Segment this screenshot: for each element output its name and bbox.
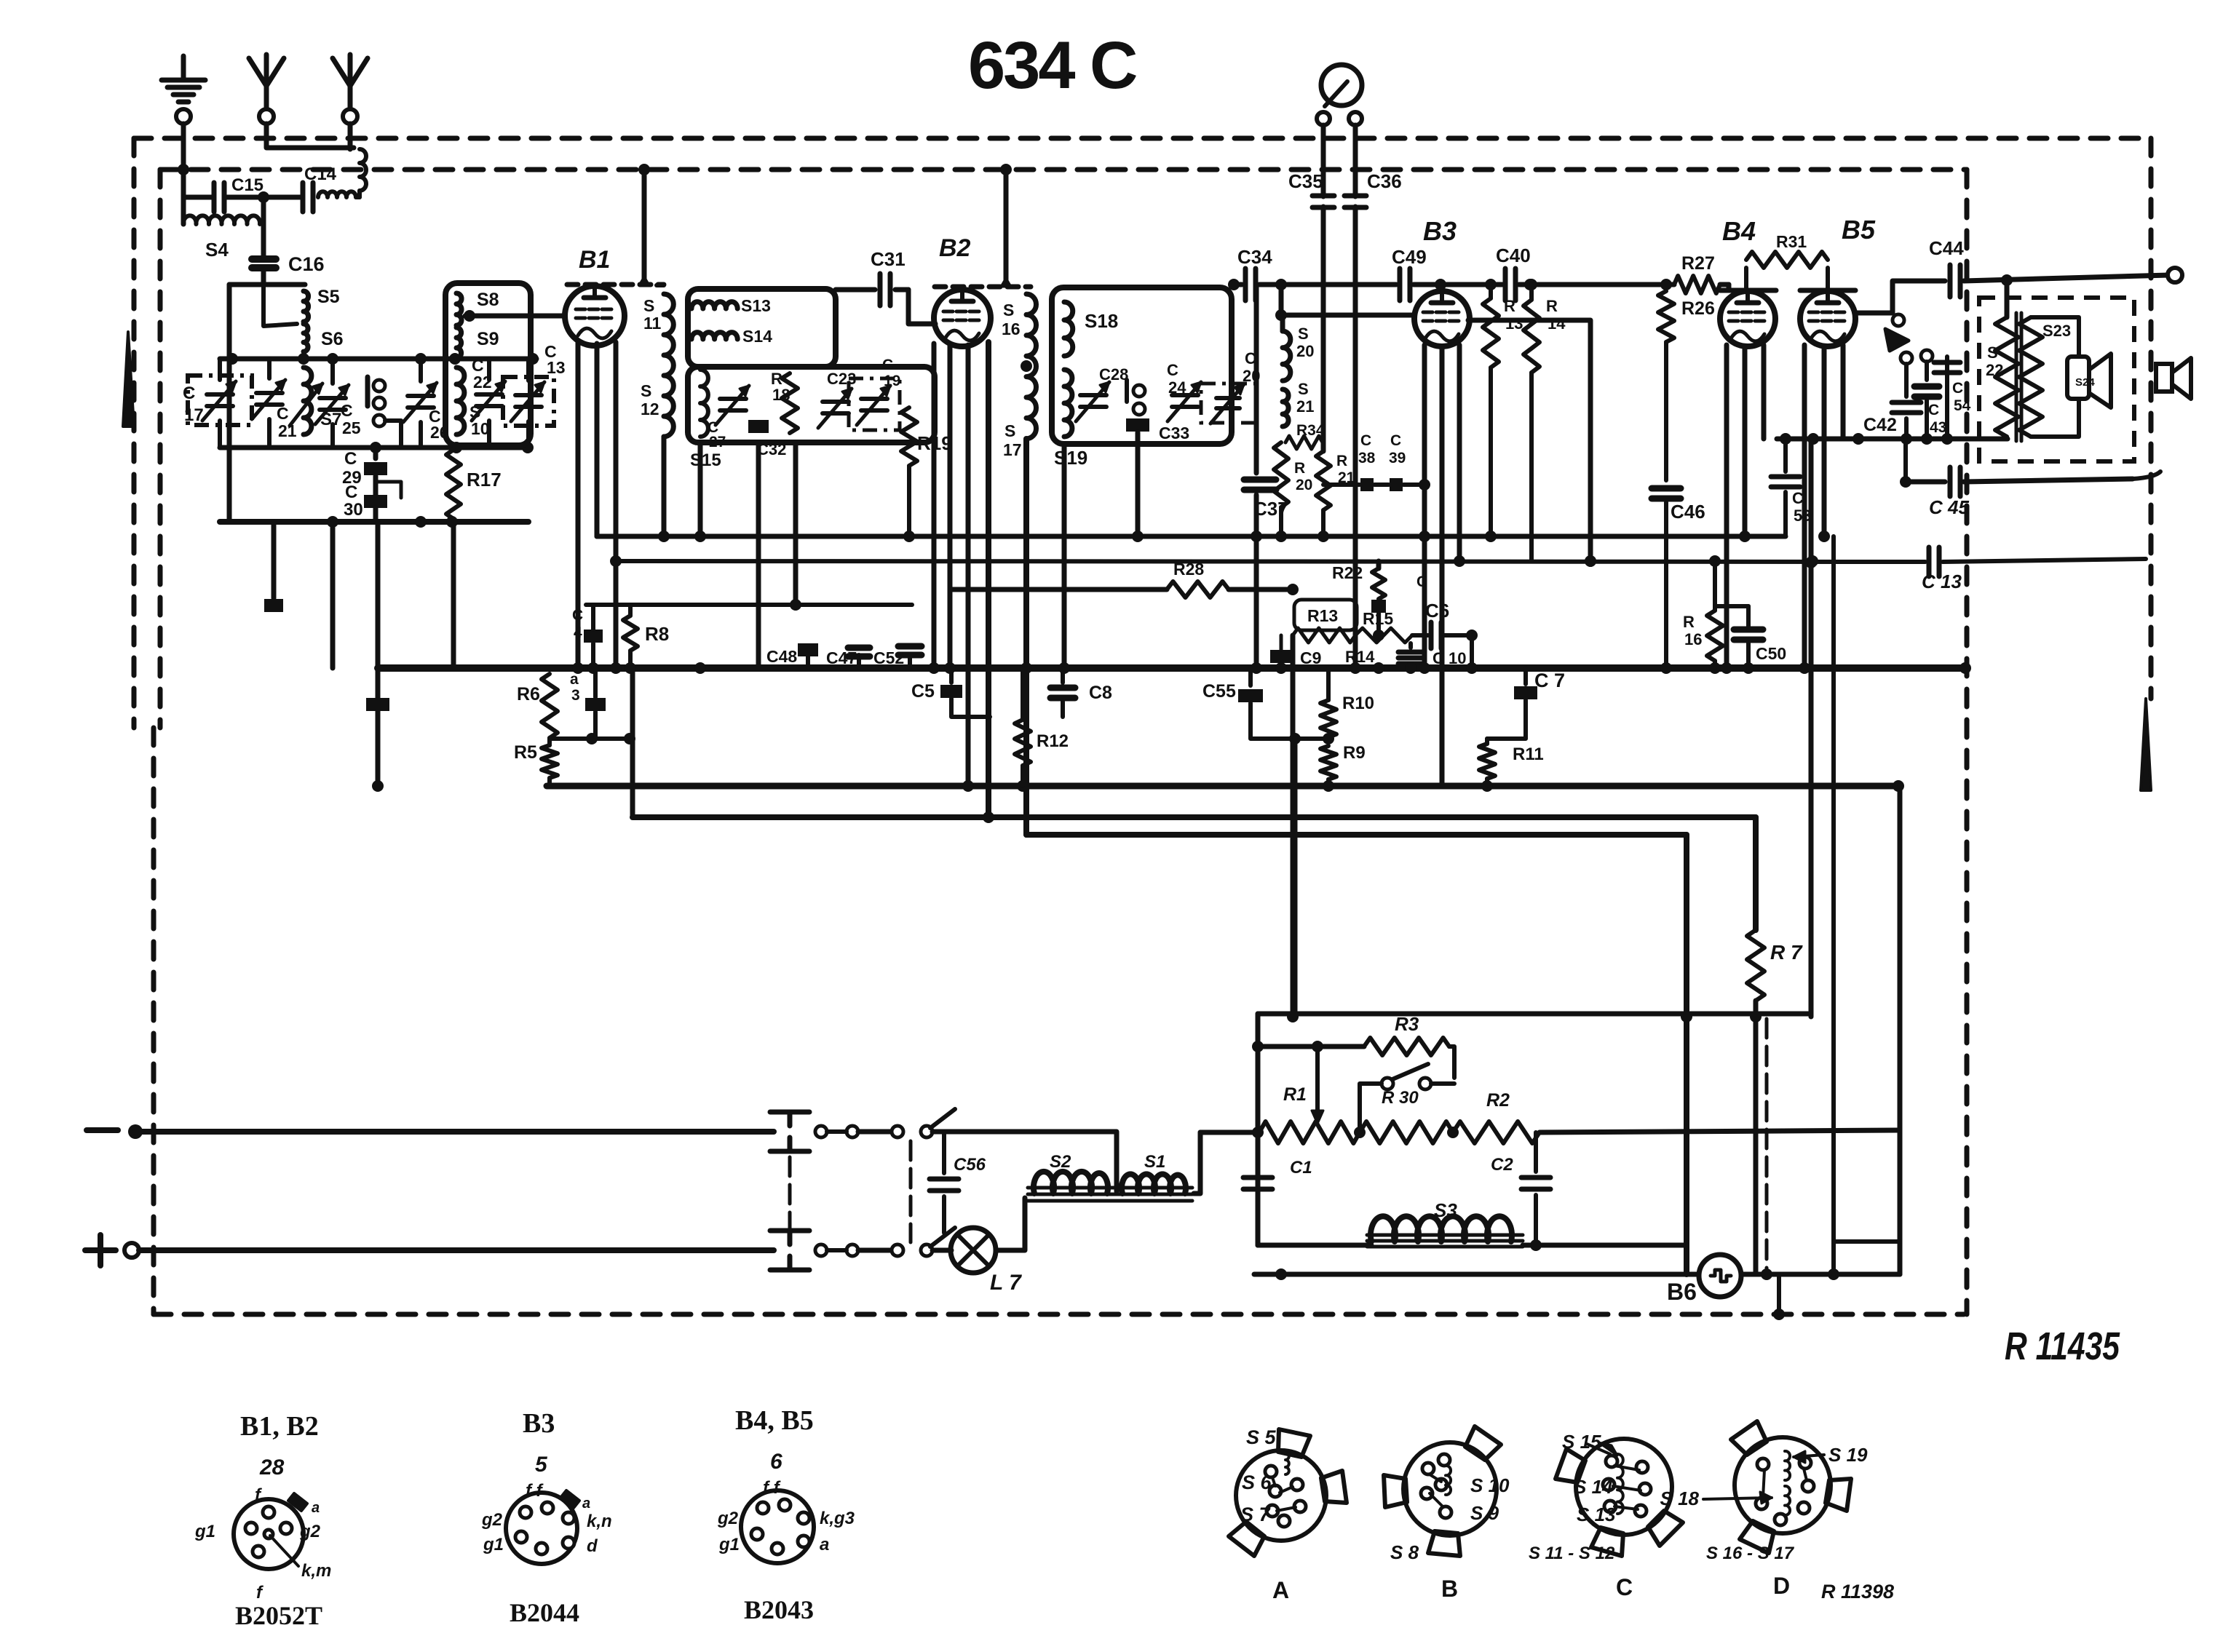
resistor R27 <box>1674 276 1720 293</box>
R-box left edge <box>1256 1014 1261 1245</box>
capacitor C56 <box>942 1132 946 1173</box>
capacitor C11 <box>1371 600 1386 613</box>
output terminal <box>2168 268 2182 282</box>
svg-text:R31: R31 <box>1776 232 1807 251</box>
coil core lines <box>1028 1186 1192 1190</box>
wire coil tap <box>263 285 297 326</box>
capacitor C45 wire <box>1903 439 1908 482</box>
antenna terminal 2 <box>343 109 357 124</box>
resistor R3 <box>1364 1038 1449 1055</box>
coil S7 <box>304 368 312 434</box>
capacitor C34 <box>1243 269 1248 301</box>
resistor R19 <box>901 408 917 466</box>
capacitor C49 <box>1398 269 1403 301</box>
svg-text:C 45: C 45 <box>1929 496 1969 518</box>
wire B6 right <box>1741 1272 1900 1277</box>
coil after C14 <box>318 191 356 197</box>
mains connector upper <box>770 1110 809 1115</box>
svg-text:B1, B2: B1, B2 <box>240 1411 319 1442</box>
svg-text:S9: S9 <box>477 329 499 349</box>
variable capacitor C21 <box>267 359 272 378</box>
svg-text:B4, B5: B4, B5 <box>735 1405 814 1436</box>
resistor R2 <box>1453 1121 1540 1143</box>
svg-text:S 13: S 13 <box>1577 1504 1616 1525</box>
svg-text:6: 6 <box>770 1450 782 1474</box>
wire x2317 drop <box>1684 835 1689 1274</box>
svg-text:C: C <box>277 404 289 423</box>
svg-text:12: 12 <box>641 400 659 418</box>
svg-text:S8: S8 <box>477 290 499 310</box>
svg-text:R17: R17 <box>467 469 502 491</box>
B1 grid cap wire from chassis <box>642 170 647 282</box>
wire x1779 drop to R-box <box>1293 739 1298 1017</box>
resistor R28 <box>950 587 1167 592</box>
svg-text:R: R <box>1504 297 1515 315</box>
svg-text:C34: C34 <box>1237 246 1272 268</box>
ground symbol <box>181 56 186 79</box>
svg-text:R13: R13 <box>1307 606 1338 625</box>
wiper arrow R1 <box>1315 1047 1320 1109</box>
chassis dashed border outer right <box>2149 138 2154 699</box>
svg-text:g1: g1 <box>194 1522 215 1541</box>
wire C29 side loop <box>376 482 401 498</box>
svg-text:B1: B1 <box>579 246 610 274</box>
B4 legs <box>1724 345 1729 668</box>
svg-text:634 C: 634 C <box>968 28 1136 103</box>
capacitor C50 <box>1715 604 1748 608</box>
svg-text:C32: C32 <box>757 440 786 458</box>
svg-text:R12: R12 <box>1037 731 1069 751</box>
resistor R14v <box>1529 285 1534 300</box>
wire ground to node <box>181 124 186 197</box>
svg-text:B2052T: B2052T <box>235 1601 322 1630</box>
capacitor C31 <box>878 274 883 306</box>
transformer S23 secondary <box>2019 317 2042 437</box>
resistor R5 <box>542 745 558 778</box>
resistor R1 <box>1259 1121 1360 1143</box>
svg-text:S4: S4 <box>205 239 229 261</box>
box4 outline <box>1052 287 1232 444</box>
resistor R6 <box>542 674 558 738</box>
chassis dashed border outer left <box>132 138 137 728</box>
capacitor C38 <box>1360 478 1374 491</box>
trimmer box C17 <box>188 376 252 425</box>
svg-text:S1: S1 <box>1144 1152 1165 1172</box>
svg-text:C2: C2 <box>1491 1155 1513 1175</box>
svg-text:C: C <box>1792 489 1804 507</box>
capacitor C43 <box>1914 384 1939 390</box>
wire C35 vertical <box>1321 125 1326 196</box>
svg-text:R5: R5 <box>514 742 537 763</box>
svg-text:S 14: S 14 <box>1574 1476 1613 1498</box>
coil S6 <box>304 324 308 352</box>
variable capacitor C27 <box>720 397 746 401</box>
antenna symbol 1 <box>249 58 284 86</box>
B1 top cap bar <box>567 282 664 287</box>
svg-text:21: 21 <box>1296 397 1314 416</box>
capacitor C44 <box>1948 265 1953 297</box>
svg-text:22: 22 <box>1986 361 2003 379</box>
svg-text:C42: C42 <box>1863 415 1897 435</box>
plus line <box>139 1247 774 1253</box>
legend coil pack A <box>1236 1450 1326 1541</box>
svg-text:C33: C33 <box>1159 424 1189 442</box>
capacitor C35 <box>1312 194 1334 199</box>
svg-text:C 7: C 7 <box>1534 670 1565 691</box>
svg-text:S: S <box>1298 380 1309 398</box>
svg-text:S 7: S 7 <box>1240 1504 1272 1525</box>
coil S1 <box>1122 1174 1186 1194</box>
svg-text:C: C <box>1167 361 1178 379</box>
valve B4 <box>1720 291 1775 346</box>
svg-text:S18: S18 <box>1085 310 1118 332</box>
capacitor C15 <box>212 183 217 212</box>
wire rail mid <box>220 445 528 450</box>
svg-text:13: 13 <box>547 358 566 377</box>
svg-text:S: S <box>1004 421 1015 440</box>
wire box1 left vertical <box>227 285 232 522</box>
coil S15 <box>700 370 708 437</box>
wire to lamp <box>932 1248 951 1253</box>
mains connector lower <box>770 1228 809 1234</box>
svg-text:C15: C15 <box>231 175 263 195</box>
wire S1 to R1 <box>1194 1132 1200 1194</box>
svg-text:16: 16 <box>1002 319 1021 338</box>
wire S8 to B1 grid <box>465 314 565 319</box>
variable capacitor C22 <box>487 359 491 380</box>
wire C38 C39 row <box>1323 483 1360 487</box>
chassis dashed border left lower <box>151 728 156 1314</box>
resistor R20 <box>1274 442 1288 507</box>
capacitor C7 <box>1523 668 1528 684</box>
capacitor C47 <box>857 655 861 668</box>
resistor R16 <box>1713 561 1717 611</box>
wire C36 vertical <box>1353 125 1358 196</box>
switch contacts 2 <box>1125 380 1129 402</box>
resistor R26 <box>1658 291 1674 342</box>
resistor R13 <box>1293 628 1355 643</box>
svg-text:B2: B2 <box>939 234 971 262</box>
svg-text:a: a <box>312 1500 320 1516</box>
svg-text:S23: S23 <box>2042 322 2071 340</box>
capacitor C4 <box>584 630 603 643</box>
resistor R11 <box>1479 744 1495 779</box>
variable capacitor C24 <box>1172 393 1198 397</box>
svg-text:R6: R6 <box>517 684 540 704</box>
svg-text:C28: C28 <box>1099 365 1128 384</box>
R13 label box <box>1294 600 1357 630</box>
resistor R18 <box>782 373 798 433</box>
wire box3 drop <box>698 442 703 536</box>
svg-text:C: C <box>341 401 353 420</box>
antenna symbol 2 <box>333 58 368 86</box>
valve B2 <box>934 290 991 346</box>
svg-text:R: R <box>1546 297 1558 315</box>
valve B3 <box>1414 291 1470 346</box>
svg-text:S24: S24 <box>2075 376 2095 389</box>
svg-text:25: 25 <box>342 418 361 437</box>
svg-text:a: a <box>570 671 579 688</box>
svg-text:24: 24 <box>1168 378 1186 397</box>
wire lower rail <box>1254 1272 1699 1277</box>
svg-text:C: C <box>1952 380 1963 397</box>
svg-text:R28: R28 <box>1173 560 1204 579</box>
capacitor C10 <box>1408 643 1413 648</box>
wire y1123 link <box>633 814 1756 820</box>
capacitor C8 <box>1061 668 1065 683</box>
capacitor C52 <box>908 655 912 668</box>
B5 top bar <box>1800 288 1855 293</box>
capacitor a3 <box>593 668 598 697</box>
connector mechanical link <box>788 1157 792 1240</box>
B3 top cap wire <box>1440 285 1445 291</box>
coil S18 <box>1064 302 1073 356</box>
svg-text:R3: R3 <box>1395 1013 1419 1035</box>
svg-text:3: 3 <box>571 687 580 704</box>
capacitor C13 <box>1927 547 1932 576</box>
wire x865 drop <box>630 668 635 817</box>
wire R2 to right <box>1540 1130 1900 1132</box>
svg-text:S15: S15 <box>690 450 721 470</box>
svg-text:R: R <box>1294 460 1305 477</box>
capacitor C48 <box>806 655 810 668</box>
svg-text:S 6: S 6 <box>1242 1472 1272 1493</box>
svg-text:4: 4 <box>574 624 582 641</box>
svg-text:C48: C48 <box>766 647 797 666</box>
valve B6 rectifier <box>1699 1255 1741 1297</box>
minus terminal <box>87 1127 118 1133</box>
svg-text:27: 27 <box>709 434 726 450</box>
svg-text:C: C <box>1416 573 1427 590</box>
svg-text:R8: R8 <box>645 623 669 645</box>
switch R30 <box>1382 1078 1393 1089</box>
svg-text:S 9: S 9 <box>1470 1502 1499 1524</box>
svg-text:C: C <box>345 483 357 502</box>
svg-text:S 11 - S 12: S 11 - S 12 <box>1529 1544 1615 1563</box>
svg-text:43: 43 <box>1930 419 1946 436</box>
capacitor C53 <box>1783 439 1788 472</box>
svg-text:R34: R34 <box>1296 422 1325 439</box>
capacitor C42 drop <box>1904 418 1909 439</box>
svg-text:C6: C6 <box>1425 600 1449 622</box>
svg-text:S: S <box>641 381 651 400</box>
wire vertical x457 <box>330 522 336 668</box>
wire R13 row drop <box>1291 635 1296 1017</box>
coil S14 <box>692 333 737 339</box>
resistor R9 <box>1320 746 1336 779</box>
svg-text:g2: g2 <box>717 1509 739 1528</box>
B2 legs <box>932 343 937 668</box>
legend coil pack B <box>1403 1442 1497 1536</box>
svg-text:C: C <box>1616 1574 1633 1600</box>
switch lower <box>858 1248 891 1253</box>
coil S5 <box>304 291 309 322</box>
capacitor C5 <box>949 668 954 683</box>
variable capacitor C26 <box>419 359 423 381</box>
svg-text:g1: g1 <box>483 1535 504 1554</box>
variable capacitor C19 <box>861 397 887 401</box>
trimmer box C19 <box>849 378 900 430</box>
main bus y1080 <box>547 783 1898 790</box>
svg-text:30: 30 <box>344 500 363 520</box>
coil antenna input small <box>360 149 366 191</box>
svg-text:k,m: k,m <box>301 1561 331 1581</box>
wire C31 to B2 grid <box>908 290 935 324</box>
svg-text:C52: C52 <box>873 648 904 667</box>
svg-text:38: 38 <box>1358 450 1376 466</box>
anode wire to C44 <box>1855 311 1893 316</box>
svg-text:C: C <box>882 357 893 373</box>
headphone jack <box>1893 314 1904 326</box>
coil S20 <box>1280 315 1285 331</box>
svg-text:R15: R15 <box>1363 609 1393 628</box>
svg-text:20: 20 <box>1296 342 1314 360</box>
coil S10 <box>456 368 464 434</box>
wire drop left cluster a <box>376 522 381 787</box>
svg-text:17: 17 <box>184 405 204 425</box>
wire y737 link <box>597 534 1786 539</box>
svg-text:S 15: S 15 <box>1562 1431 1601 1453</box>
plus terminal <box>85 1247 116 1253</box>
svg-text:S3: S3 <box>1434 1199 1457 1221</box>
resistor R22 <box>1376 561 1382 568</box>
svg-text:A: A <box>1272 1577 1289 1603</box>
B4 top bar <box>1720 288 1776 293</box>
svg-text:C: C <box>572 607 583 624</box>
svg-text:d: d <box>587 1536 598 1556</box>
svg-text:a: a <box>582 1496 590 1512</box>
capacitor C14 <box>301 183 306 212</box>
coil S21 <box>1283 389 1288 426</box>
wire C44 to output terminal <box>1964 275 2169 281</box>
svg-text:13: 13 <box>1505 314 1523 333</box>
valve B5 <box>1800 291 1855 346</box>
svg-text:C47: C47 <box>826 648 857 667</box>
chassis dashed border inner right <box>1965 170 1970 1314</box>
wire R19 drop <box>907 466 911 536</box>
resistor R15 <box>1355 628 1412 643</box>
svg-text:R 11435: R 11435 <box>2005 1325 2120 1368</box>
svg-text:C: C <box>183 384 195 403</box>
legend coil pack D <box>1735 1437 1831 1533</box>
capacitor C3 on drop <box>366 698 389 711</box>
svg-text:C49: C49 <box>1392 246 1427 268</box>
B3 anode wire right <box>1468 320 1590 561</box>
trimmer box C20 <box>1201 384 1256 423</box>
svg-text:B2043: B2043 <box>744 1595 814 1624</box>
indicator terminals <box>1317 112 1330 125</box>
svg-text:g2: g2 <box>481 1510 503 1530</box>
resistor R31 <box>1744 268 1748 289</box>
stub x376 below rail <box>272 522 277 598</box>
resistor R34 horizontal <box>1285 436 1323 449</box>
wire drop to chassis <box>1777 1274 1781 1314</box>
wire grid row y433 <box>1281 313 1414 318</box>
capacitor C32 <box>748 420 769 433</box>
capacitor C30 <box>364 495 387 508</box>
R-box top edge <box>1258 1012 1808 1017</box>
wire x1462? <box>1831 1242 1836 1274</box>
switch mechanical link <box>909 1141 913 1242</box>
svg-text:S19: S19 <box>1054 447 1087 469</box>
svg-text:C1: C1 <box>1290 1158 1312 1178</box>
speaker external <box>2156 364 2172 392</box>
svg-text:g2: g2 <box>299 1522 321 1541</box>
svg-text:B: B <box>1441 1576 1458 1602</box>
B3 legs <box>1422 345 1427 668</box>
variable capacitor C23 <box>823 400 849 404</box>
chassis dashed border outer top <box>134 136 2151 141</box>
resistor R8 <box>628 605 633 616</box>
capacitor C1 <box>1256 1132 1260 1172</box>
svg-text:R26: R26 <box>1681 298 1715 319</box>
B5 legs <box>1802 345 1807 668</box>
svg-text:20: 20 <box>1296 477 1312 493</box>
antenna terminal 1 <box>259 109 274 124</box>
right antenna arrow mark <box>2141 699 2151 790</box>
svg-text:S6: S6 <box>321 329 344 349</box>
resistor R21 <box>1316 451 1331 510</box>
wire C15 row <box>183 195 214 200</box>
box3a outline <box>688 289 836 367</box>
coil S11 S12 <box>664 294 673 437</box>
svg-text:R10: R10 <box>1342 694 1374 713</box>
svg-text:S: S <box>1987 343 1998 362</box>
svg-text:S14: S14 <box>742 327 772 346</box>
wire C16 to box1 <box>261 270 266 285</box>
svg-text:R 7: R 7 <box>1770 941 1803 964</box>
lamp L7 <box>951 1228 996 1273</box>
node S4 right <box>258 191 269 203</box>
capacitor C2 <box>1534 1132 1538 1172</box>
wire y1015 left <box>550 736 630 741</box>
chassis dashed border inner left stub <box>158 170 163 728</box>
svg-text:C16: C16 <box>288 253 325 275</box>
box2 outline <box>445 283 531 445</box>
svg-text:C36: C36 <box>1367 170 1402 192</box>
speaker S24 <box>2031 317 2079 357</box>
svg-text:g1: g1 <box>718 1535 740 1554</box>
svg-text:C5: C5 <box>911 681 935 702</box>
coil S3 <box>1258 1243 1371 1248</box>
wire osc top link <box>1279 285 1284 315</box>
svg-text:S 8: S 8 <box>1390 1541 1419 1563</box>
svg-text:17: 17 <box>1003 440 1022 459</box>
svg-text:54: 54 <box>1954 397 1971 414</box>
wire transformer bottom <box>2005 437 2009 439</box>
capacitor C36 <box>1344 194 1366 199</box>
wire antenna2 drop <box>348 124 353 149</box>
node on inner dashed line <box>178 164 189 175</box>
svg-text:B3: B3 <box>523 1408 555 1439</box>
resistor R13v <box>1489 285 1493 298</box>
box3b outline <box>688 367 935 442</box>
svg-text:B2044: B2044 <box>510 1598 579 1627</box>
coil S19 <box>1064 370 1072 437</box>
wire y771 link <box>616 561 1925 562</box>
variable capacitor C25 <box>330 359 335 384</box>
wire x2519 vertical <box>1831 536 1836 1242</box>
svg-text:14: 14 <box>1548 314 1566 333</box>
wire R1 left entry <box>1200 1130 1259 1135</box>
svg-text:R1: R1 <box>1283 1084 1307 1105</box>
svg-text:B3: B3 <box>1423 216 1457 246</box>
variable capacitor C17 <box>218 359 222 380</box>
svg-text:R: R <box>1336 453 1347 469</box>
legend coil pack C <box>1576 1439 1672 1535</box>
coil S8 <box>456 293 461 325</box>
minus line <box>135 1129 774 1135</box>
